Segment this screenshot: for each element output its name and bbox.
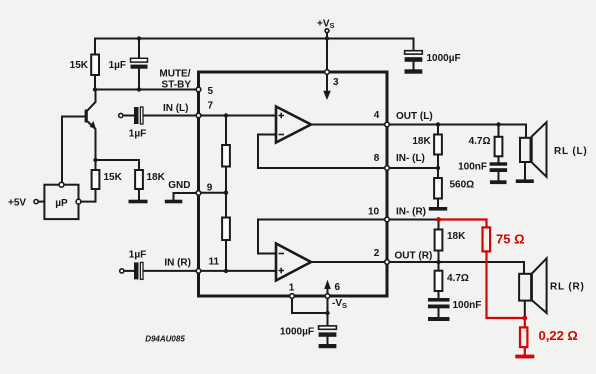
svg-text:18K: 18K [412,136,431,147]
svg-text:OUT (R): OUT (R) [395,250,433,261]
svg-text:5: 5 [208,86,214,97]
svg-text:1µF: 1µF [129,250,146,261]
svg-text:6: 6 [335,282,341,293]
svg-text:8: 8 [374,153,380,164]
svg-text:µP: µP [55,198,68,209]
svg-text:RL (R): RL (R) [550,282,585,293]
svg-text:15K: 15K [70,60,89,71]
svg-text:18K: 18K [147,172,166,183]
svg-text:100nF: 100nF [458,162,487,173]
svg-text:100nF: 100nF [453,300,482,311]
svg-text:IN (R): IN (R) [164,258,191,269]
svg-text:15K: 15K [104,172,123,183]
svg-text:GND: GND [168,180,190,191]
svg-text:1000µF: 1000µF [280,327,314,338]
svg-text:ST-BY: ST-BY [162,79,192,90]
svg-text:S: S [342,301,347,310]
svg-text:IN (L): IN (L) [163,103,189,114]
svg-text:560Ω: 560Ω [450,180,475,191]
svg-text:MUTE/: MUTE/ [159,69,190,80]
svg-text:4.7Ω: 4.7Ω [447,273,469,284]
svg-text:7: 7 [208,100,214,111]
svg-text:3: 3 [333,77,339,88]
svg-text:1000µF: 1000µF [427,53,461,64]
svg-text:1µF: 1µF [109,60,126,71]
svg-text:1µF: 1µF [129,129,146,140]
svg-text:11: 11 [209,257,220,268]
svg-text:IN- (R): IN- (R) [396,207,426,218]
svg-text:IN- (L): IN- (L) [396,153,425,164]
svg-text:9: 9 [207,183,213,194]
svg-text:75 Ω: 75 Ω [496,231,525,246]
svg-text:1: 1 [289,282,295,293]
svg-text:10: 10 [368,207,380,218]
svg-text:0,22 Ω: 0,22 Ω [539,328,578,343]
svg-text:4.7Ω: 4.7Ω [469,136,491,147]
svg-text:4: 4 [374,110,380,121]
svg-text:S: S [330,21,335,30]
svg-text:2: 2 [374,248,380,259]
svg-text:D94AU085: D94AU085 [145,334,185,343]
svg-text:+5V: +5V [8,197,26,208]
svg-text:-V: -V [332,298,342,309]
svg-text:OUT (L): OUT (L) [396,111,433,122]
svg-text:RL (L): RL (L) [554,146,588,157]
svg-text:+V: +V [317,19,330,30]
svg-text:18K: 18K [447,231,466,242]
